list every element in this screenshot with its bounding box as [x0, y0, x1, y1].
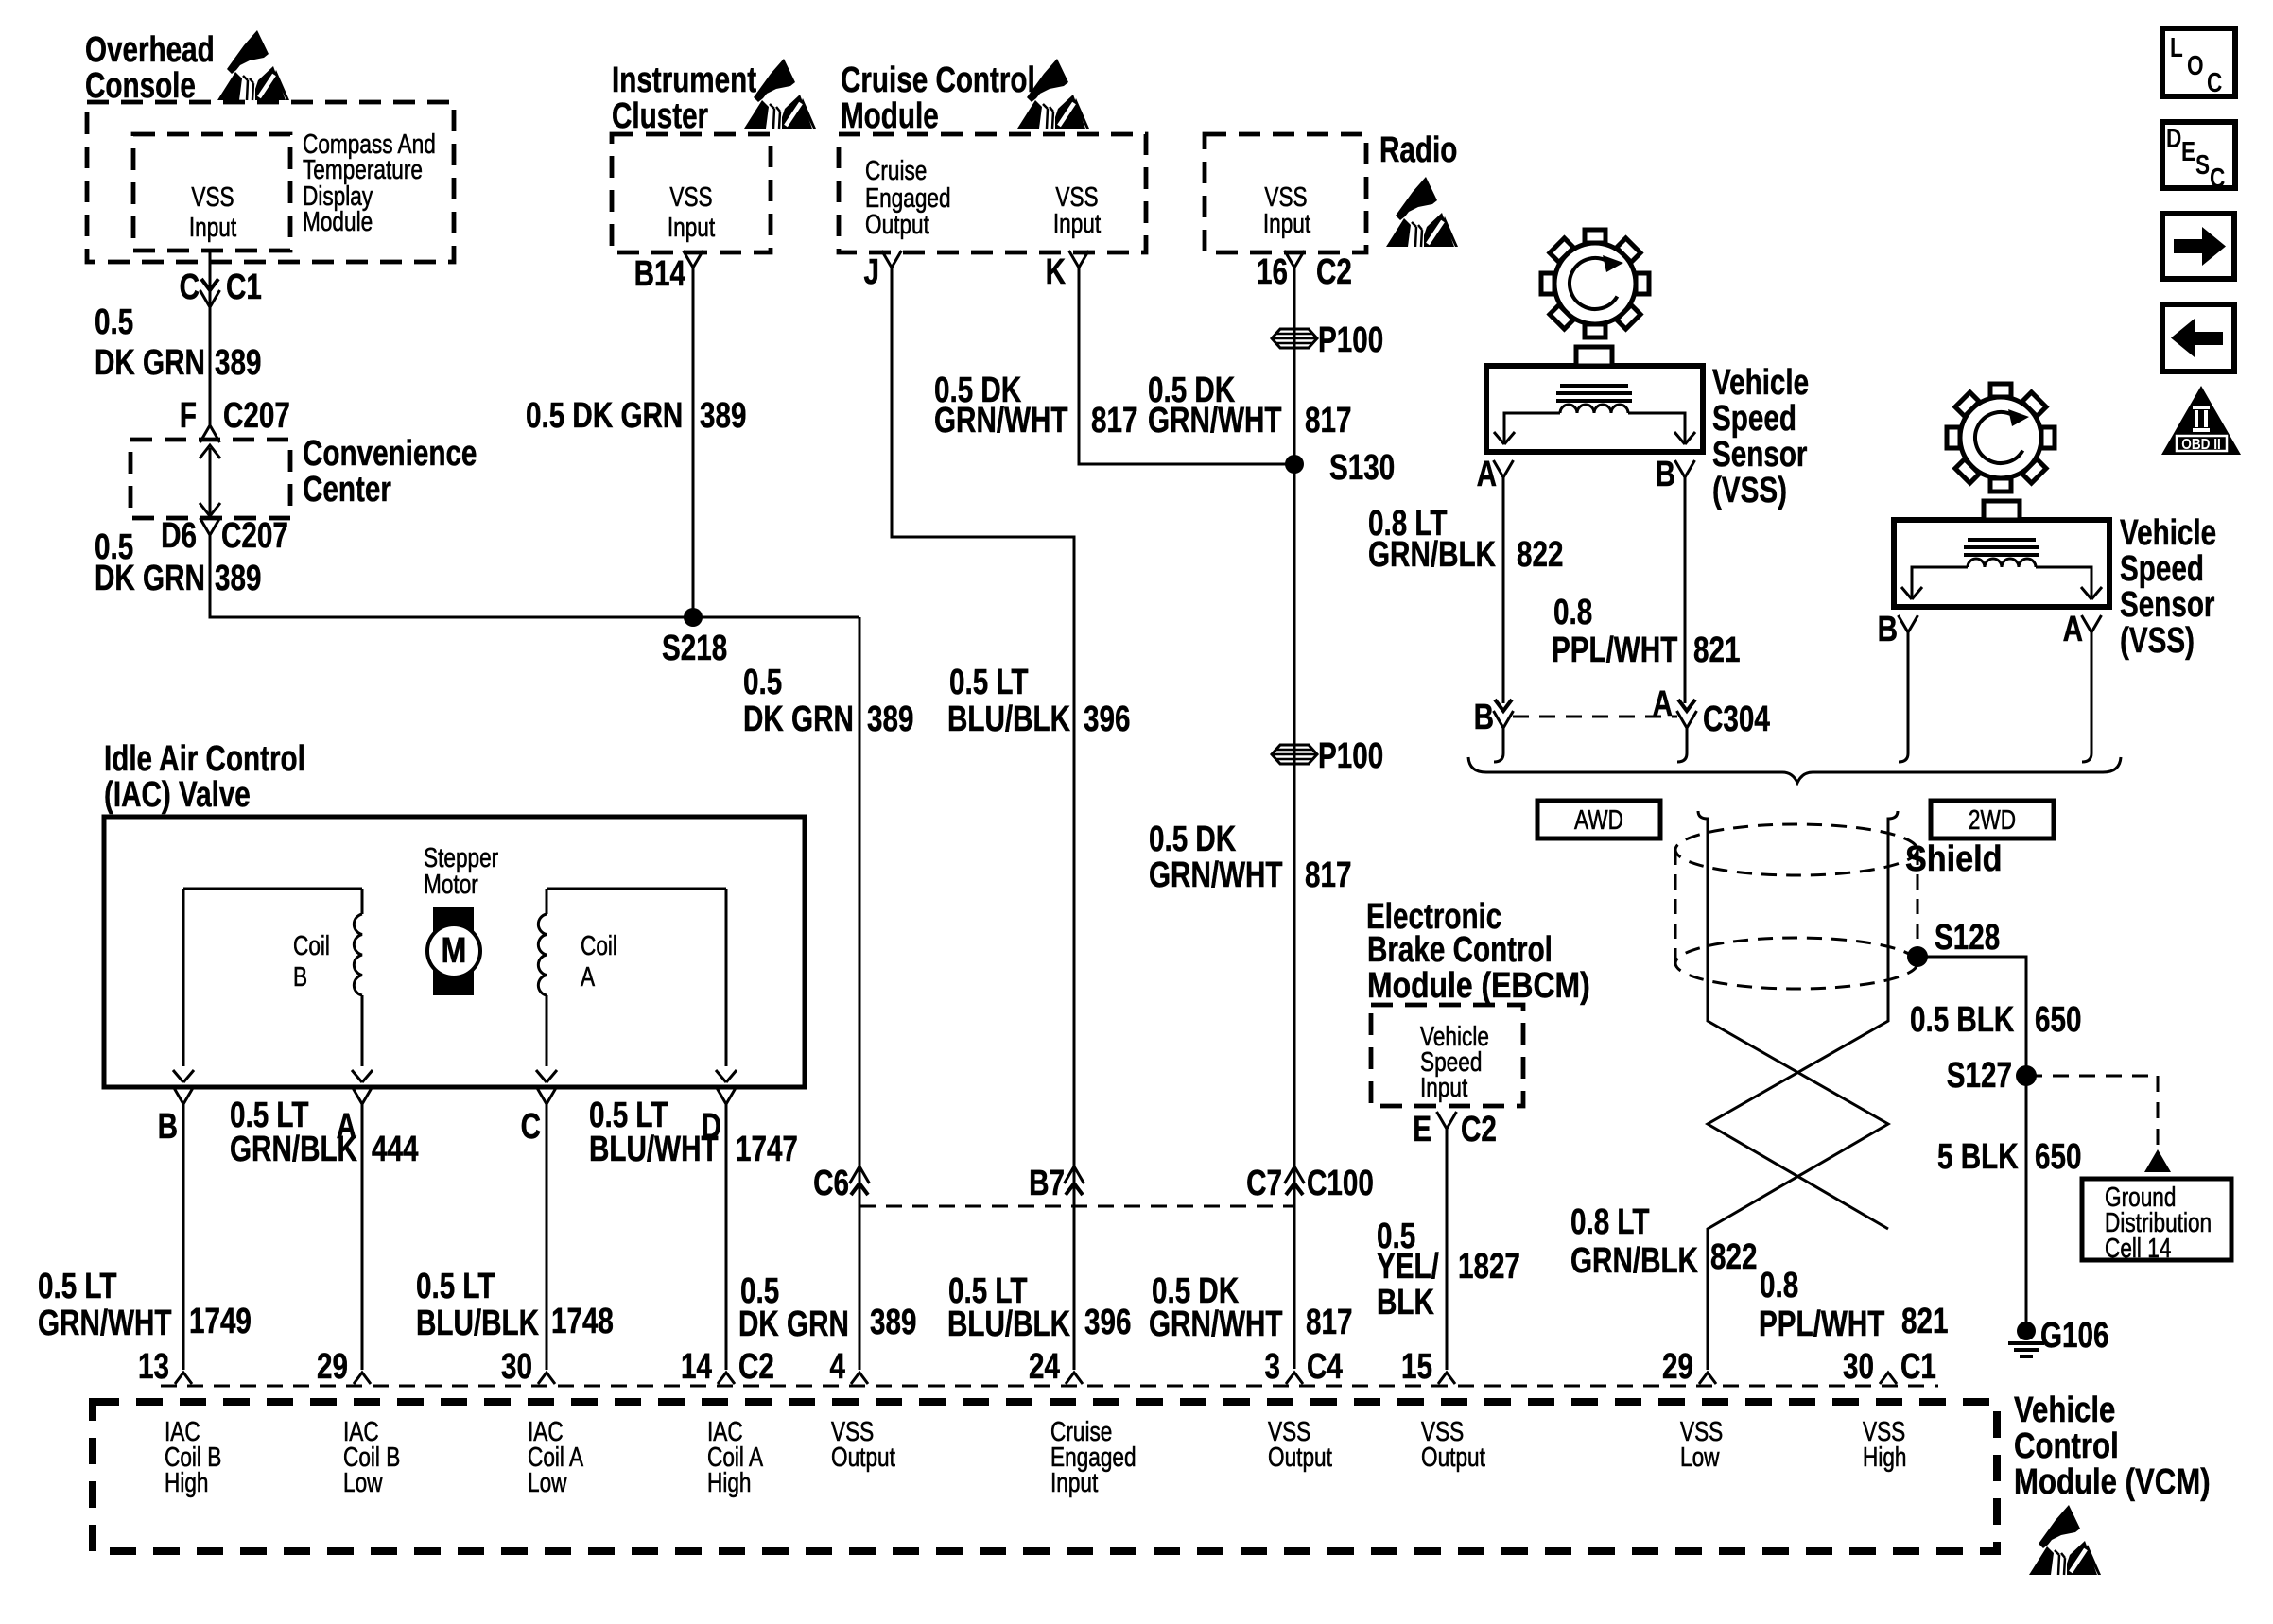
wire label 0.5 BLK 650: [1910, 1000, 2081, 1040]
dashed wire S127 to Ground Distribution: [2026, 1076, 2171, 1172]
svg-text:Cell 14: Cell 14: [2105, 1232, 2171, 1263]
svg-text:High: High: [707, 1466, 752, 1497]
svg-text:C: C: [2210, 162, 2226, 193]
svg-text:DK GRN: DK GRN: [95, 343, 205, 383]
svg-text:GRN/BLK: GRN/BLK: [1570, 1241, 1698, 1281]
VCM pin label IAC Coil A Low: [528, 1415, 584, 1497]
svg-text:P100: P100: [1318, 320, 1383, 360]
svg-text:Low: Low: [343, 1466, 383, 1497]
svg-text:Output: Output: [865, 208, 930, 239]
svg-text:F: F: [180, 396, 197, 436]
svg-text:Motor: Motor: [424, 868, 478, 899]
svg-text:(VSS): (VSS): [1712, 471, 1787, 510]
vehicle speed sensor 1 body: [1486, 366, 1703, 452]
svg-text:PPL/WHT: PPL/WHT: [1552, 631, 1677, 670]
svg-text:(VSS): (VSS): [2120, 621, 2195, 661]
pin 16 C2: [1257, 251, 1352, 292]
svg-text:VSS: VSS: [191, 181, 234, 212]
label Coil A: [581, 929, 617, 992]
svg-text:A: A: [1477, 455, 1497, 494]
harness underbrace: [1468, 757, 2121, 783]
wire label 0.5 LT BLU/BLK 1748: [416, 1267, 614, 1343]
svg-text:C2: C2: [1461, 1110, 1497, 1149]
svg-text:Idle Air Control: Idle Air Control: [104, 739, 305, 779]
wire label 5 BLK 650: [1937, 1137, 2081, 1177]
svg-text:G106: G106: [2040, 1316, 2108, 1356]
label Vehicle Speed Sensor (VSS) 1: [1712, 363, 1809, 510]
double arrow inside Convenience Center: [200, 445, 220, 516]
svg-text:E: E: [2181, 135, 2195, 166]
svg-text:E: E: [1413, 1110, 1431, 1149]
svg-text:4: 4: [830, 1347, 846, 1387]
svg-text:Console: Console: [85, 66, 196, 106]
svg-text:444: 444: [372, 1130, 418, 1169]
svg-text:Output: Output: [831, 1441, 896, 1472]
label Stepper Motor: [424, 841, 499, 899]
wire radio VSS down to VCM pin 3: [1293, 268, 1296, 1369]
svg-text:B: B: [293, 960, 307, 992]
shield cylinder dashed: [1675, 824, 1917, 989]
svg-text:D: D: [2166, 122, 2181, 153]
svg-text:Input: Input: [1053, 207, 1102, 238]
OBD II triangle: [2161, 386, 2241, 455]
svg-text:0.5 LT: 0.5 LT: [949, 663, 1029, 702]
wire IAC B to VCM: [182, 1104, 185, 1370]
svg-text:16: 16: [1257, 252, 1288, 292]
svg-text:389: 389: [867, 700, 913, 739]
svg-text:J: J: [864, 252, 879, 292]
svg-text:Overhead: Overhead: [85, 30, 215, 70]
pin J: [864, 251, 902, 292]
svg-text:0.5 DK GRN: 0.5 DK GRN: [526, 396, 683, 436]
svg-text:5 BLK: 5 BLK: [1937, 1137, 2019, 1177]
wire sensor2 A stub: [2091, 632, 2093, 753]
wire label 0.5 DK GRN 389 (instrument cluster): [526, 396, 746, 436]
label Coil B: [293, 929, 330, 992]
svg-text:B7: B7: [1029, 1164, 1065, 1203]
sensor1 pin A: [1477, 455, 1514, 494]
svg-text:Sensor: Sensor: [2120, 585, 2214, 625]
connector C100 pin C7: [1246, 1164, 1374, 1203]
svg-text:High: High: [165, 1466, 209, 1497]
wire label 0.8 LT GRN/BLK 822: [1368, 504, 1563, 575]
ESD symbol Instrument Cluster: [744, 59, 816, 129]
svg-text:OBD II: OBD II: [2181, 437, 2221, 453]
DESC reference box: [2162, 122, 2235, 194]
VCM pin 3/C4: [1265, 1347, 1343, 1387]
svg-text:C207: C207: [221, 516, 288, 556]
svg-text:Cruise Control: Cruise Control: [841, 60, 1035, 100]
connector C100 dashed line: [859, 1205, 1294, 1208]
svg-text:Sensor: Sensor: [1712, 435, 1807, 475]
label Compass And Temperature Display Module: [303, 128, 436, 236]
svg-text:BLK: BLK: [1377, 1283, 1434, 1322]
svg-text:S128: S128: [1935, 918, 2000, 958]
svg-text:A: A: [581, 960, 596, 992]
svg-text:Vehicle: Vehicle: [2014, 1391, 2115, 1430]
svg-text:BLU/BLK: BLU/BLK: [947, 1304, 1070, 1344]
VCM connector dashed pin line: [161, 1385, 1938, 1388]
svg-text:0.8: 0.8: [1760, 1266, 1798, 1305]
svg-text:Input: Input: [189, 211, 237, 242]
svg-text:396: 396: [1084, 700, 1130, 739]
svg-text:Module (VCM): Module (VCM): [2014, 1462, 2211, 1502]
svg-text:Module (EBCM): Module (EBCM): [1367, 965, 1590, 1005]
wire label 0.5 DK GRN 389 (lower): [95, 527, 261, 598]
module Overhead Console title: [85, 30, 215, 106]
VCM pin 15: [1401, 1347, 1455, 1387]
svg-text:2WD: 2WD: [1969, 803, 2016, 835]
svg-text:Brake Control: Brake Control: [1367, 930, 1553, 970]
svg-text:GRN/BLK: GRN/BLK: [1368, 535, 1496, 575]
svg-text:O: O: [2187, 49, 2204, 80]
wire label 0.5 DK GRN/WHT 817 (K): [934, 371, 1137, 441]
svg-text:C1: C1: [226, 268, 262, 307]
wire label 0.5 DK GRN 389 (S218 wire): [743, 663, 913, 739]
ESD symbol Radio: [1386, 177, 1458, 247]
svg-text:GRN/WHT: GRN/WHT: [38, 1304, 172, 1343]
wire label 0.8 PPL/WHT 821 (lower): [1759, 1266, 1948, 1344]
svg-text:Output: Output: [1421, 1441, 1486, 1472]
svg-text:Output: Output: [1268, 1441, 1333, 1472]
svg-text:S130: S130: [1329, 448, 1395, 488]
VCM pin label VSS High: [1863, 1415, 1907, 1472]
module Instrument Cluster title: [612, 60, 756, 136]
connector P100 (upper): [1272, 320, 1383, 360]
wire label 0.5 DK GRN 389 (bottom): [738, 1271, 916, 1344]
VCM box: [93, 1402, 1997, 1551]
svg-text:C: C: [2207, 66, 2223, 97]
svg-text:C6: C6: [813, 1164, 849, 1203]
wire IAC C to VCM: [546, 1104, 548, 1370]
svg-text:C: C: [180, 268, 200, 307]
svg-text:389: 389: [700, 396, 746, 436]
coil A (IAC): [536, 889, 737, 1082]
svg-text:C1: C1: [1900, 1347, 1936, 1387]
wire C304 A stub: [1686, 728, 1689, 753]
svg-text:BLU/WHT: BLU/WHT: [589, 1130, 719, 1169]
EBCM box: [1371, 1005, 1523, 1106]
IAC valve box: [104, 817, 805, 1087]
svg-text:C100: C100: [1307, 1164, 1374, 1203]
svg-text:(IAC) Valve: (IAC) Valve: [104, 775, 251, 815]
IAC pin C: [521, 1087, 557, 1147]
splice S127: [1947, 1056, 2037, 1096]
Ground Distribution Cell 14 box: [2082, 1179, 2231, 1264]
svg-text:C: C: [521, 1107, 541, 1147]
svg-text:Center: Center: [303, 470, 391, 510]
svg-text:DK GRN: DK GRN: [743, 700, 854, 739]
svg-text:A: A: [1653, 684, 1673, 724]
connector C100 pin C6: [813, 1164, 869, 1203]
splice S218: [662, 608, 727, 668]
wire label 0.5 DK GRN/WHT 817 (bottom): [1149, 1271, 1352, 1344]
EBCM pin E C2: [1413, 1110, 1497, 1149]
wire label 0.5 DK GRN/WHT 817 (radio upper): [1148, 371, 1351, 441]
svg-text:1747: 1747: [736, 1130, 798, 1169]
svg-text:0.5 LT: 0.5 LT: [416, 1267, 495, 1306]
Convenience Center box: [130, 440, 290, 518]
label Convenience Center: [303, 434, 477, 510]
svg-text:389: 389: [870, 1303, 916, 1342]
LOC reference box: [2162, 28, 2235, 98]
svg-text:D6: D6: [161, 516, 197, 556]
AWD box: [1537, 801, 1660, 838]
IAC pin A: [337, 1087, 373, 1147]
svg-text:Low: Low: [528, 1466, 567, 1497]
gear icon VSS 2: [1947, 384, 2055, 492]
pin B14: [634, 251, 703, 294]
wire Convenience Center down to S218 horizontal run: [210, 535, 859, 617]
VCM pin 14/C2: [681, 1347, 774, 1387]
svg-text:Input: Input: [1263, 207, 1311, 238]
sensor1 pin B: [1656, 455, 1695, 494]
svg-text:3: 3: [1265, 1347, 1280, 1387]
wire label 0.5 LT BLU/BLK 396 (bottom): [947, 1271, 1131, 1344]
pin K: [1046, 251, 1089, 292]
2WD box: [1931, 801, 2054, 838]
svg-text:30: 30: [501, 1347, 532, 1387]
svg-text:650: 650: [2035, 1000, 2081, 1040]
wire B14 to S218: [692, 268, 695, 616]
svg-text:C7: C7: [1246, 1164, 1282, 1203]
svg-text:BLU/BLK: BLU/BLK: [416, 1304, 539, 1343]
left arrow reference box: [2162, 304, 2234, 371]
svg-text:30: 30: [1843, 1347, 1874, 1387]
wire VSS Input to C1 connector: [209, 251, 212, 425]
VCM pin 30: [501, 1347, 555, 1387]
svg-text:B: B: [1878, 610, 1898, 649]
svg-text:Input: Input: [668, 211, 716, 242]
svg-text:817: 817: [1091, 401, 1137, 441]
svg-text:0.5: 0.5: [95, 302, 133, 342]
EBCM title: [1366, 897, 1590, 1006]
ESD symbol VCM: [2029, 1505, 2101, 1575]
connector C1 (pin C): [180, 268, 262, 307]
wire sensor1 A (822): [1502, 477, 1505, 703]
svg-text:1748: 1748: [551, 1302, 614, 1341]
svg-text:C304: C304: [1703, 700, 1770, 739]
connector C207 pin D6: [161, 516, 288, 556]
wire K to S130: [1079, 268, 1294, 464]
wire C304 B stub: [1502, 728, 1505, 753]
svg-text:Vehicle: Vehicle: [2120, 513, 2216, 553]
svg-text:Input: Input: [1420, 1071, 1468, 1102]
wire label 0.8 PPL/WHT 821: [1552, 593, 1740, 670]
IAC pin B: [158, 1087, 194, 1147]
svg-text:Coil: Coil: [581, 929, 617, 960]
svg-text:389: 389: [215, 343, 261, 383]
wire S128 to ground G106: [1917, 957, 2026, 1322]
svg-text:L: L: [2170, 31, 2183, 62]
svg-text:C2: C2: [738, 1347, 774, 1387]
twisted pair wire VSS High: [1708, 811, 1898, 1229]
gear icon VSS 1: [1541, 230, 1649, 337]
svg-text:Cluster: Cluster: [612, 96, 708, 136]
wire label 0.5 YEL/BLK 1827: [1377, 1217, 1520, 1322]
twisted pair wire VSS Low: [1698, 811, 1888, 1370]
svg-text:A: A: [2063, 610, 2083, 649]
VCM title: [2014, 1391, 2211, 1502]
svg-text:0.5 DK: 0.5 DK: [1149, 820, 1237, 859]
svg-text:C207: C207: [223, 396, 290, 436]
svg-text:24: 24: [1029, 1347, 1060, 1387]
svg-text:650: 650: [2035, 1137, 2081, 1177]
vehicle speed sensor 2 body: [1894, 520, 2109, 607]
svg-text:Shield: Shield: [1905, 838, 2003, 878]
svg-text:S: S: [2195, 148, 2210, 180]
svg-text:Instrument: Instrument: [612, 60, 756, 100]
label Vehicle Speed Sensor (VSS) 2: [2120, 513, 2216, 661]
svg-text:High: High: [1863, 1441, 1907, 1472]
svg-text:1827: 1827: [1458, 1247, 1520, 1287]
wire IAC A to VCM: [361, 1104, 364, 1370]
module Instrument Cluster box: [612, 134, 771, 252]
svg-text:GRN/BLK: GRN/BLK: [230, 1130, 357, 1169]
svg-text:DK GRN: DK GRN: [738, 1304, 849, 1344]
VCM pin label IAC Coil B High: [165, 1415, 221, 1497]
svg-text:DK GRN: DK GRN: [95, 559, 205, 598]
wire label 0.5 LT GRN/WHT 1749: [38, 1267, 252, 1343]
svg-text:B: B: [1656, 455, 1675, 494]
connector C304: [1474, 684, 1770, 739]
svg-text:822: 822: [1517, 535, 1563, 575]
wire EBCM E to VCM pin 15: [1446, 1129, 1449, 1370]
module Cruise Control box: [839, 134, 1146, 252]
wire sensor1 B (821): [1684, 477, 1687, 703]
sensor2 pin A: [2063, 610, 2102, 649]
svg-text:0.5: 0.5: [743, 663, 782, 702]
module Overhead Console box: [87, 102, 454, 262]
svg-text:817: 817: [1306, 1303, 1352, 1342]
wire J (cruise engaged output): [892, 268, 1074, 1370]
VCM pin 29: [1662, 1347, 1716, 1387]
svg-text:K: K: [1046, 252, 1067, 292]
svg-text:Convenience: Convenience: [303, 434, 477, 474]
ground G106: [2008, 1316, 2108, 1356]
svg-text:Vehicle: Vehicle: [1712, 363, 1809, 403]
svg-text:Speed: Speed: [1712, 399, 1796, 439]
ESD symbol Cruise Control: [1017, 59, 1089, 129]
svg-text:Radio: Radio: [1379, 130, 1457, 170]
svg-text:B: B: [158, 1107, 178, 1147]
svg-text:389: 389: [215, 559, 261, 598]
svg-text:BLU/BLK: BLU/BLK: [947, 700, 1070, 739]
svg-text:0.5 LT: 0.5 LT: [38, 1267, 117, 1306]
wire label 0.5 DK GRN/WHT 817 (radio mid): [1149, 820, 1351, 895]
svg-text:821: 821: [1901, 1302, 1948, 1341]
splice S130: [1285, 448, 1395, 488]
svg-text:0.5 BLK: 0.5 BLK: [1910, 1000, 2015, 1040]
svg-text:817: 817: [1305, 401, 1351, 441]
VCM pin 24: [1029, 1347, 1083, 1387]
svg-text:821: 821: [1693, 631, 1740, 670]
coil B (IAC): [173, 889, 373, 1082]
splice S128: [1907, 918, 2000, 967]
svg-text:Low: Low: [1680, 1441, 1720, 1472]
VCM pin 29: [317, 1347, 371, 1387]
svg-text:Input: Input: [1050, 1466, 1099, 1497]
svg-text:S218: S218: [662, 629, 727, 668]
svg-text:817: 817: [1305, 855, 1351, 895]
svg-text:Control: Control: [2014, 1426, 2119, 1466]
svg-text:Module: Module: [841, 96, 939, 136]
wire label 0.8 LT GRN/BLK 822 (lower): [1570, 1202, 1757, 1281]
svg-text:13: 13: [138, 1347, 169, 1387]
stepper motor M: [427, 907, 480, 995]
svg-text:29: 29: [1662, 1347, 1693, 1387]
svg-text:B14: B14: [634, 254, 685, 294]
svg-text:0.8: 0.8: [1553, 593, 1592, 632]
svg-text:P100: P100: [1318, 736, 1383, 776]
svg-text:15: 15: [1401, 1347, 1432, 1387]
IAC pin D: [702, 1087, 737, 1147]
VCM pin label VSS Output (4): [831, 1415, 896, 1472]
wire S218 down to VCM pin 4: [859, 617, 861, 1370]
module Cruise Control Module title: [841, 60, 1035, 136]
svg-text:822: 822: [1710, 1237, 1757, 1277]
sensor2 pin B: [1878, 610, 1918, 649]
svg-text:PPL/WHT: PPL/WHT: [1759, 1304, 1884, 1344]
module Radio box: [1205, 134, 1366, 252]
svg-text:GRN/WHT: GRN/WHT: [934, 401, 1068, 441]
svg-text:GRN/WHT: GRN/WHT: [1148, 401, 1282, 441]
svg-text:S127: S127: [1947, 1056, 2012, 1096]
wire label 0.5 LT BLU/BLK 396 (J wire): [947, 663, 1130, 739]
VCM pin label Cruise Engaged Input: [1050, 1415, 1136, 1497]
svg-text:Module: Module: [303, 205, 373, 236]
VCM pin label IAC Coil A High: [707, 1415, 764, 1497]
VCM pin label VSS Output (3): [1268, 1415, 1333, 1472]
VCM pin 13: [138, 1347, 192, 1387]
connector C100 pin B7: [1029, 1164, 1084, 1203]
right arrow reference box: [2162, 214, 2234, 279]
svg-text:C4: C4: [1307, 1347, 1343, 1387]
VCM pin label VSS Output (15): [1421, 1415, 1486, 1472]
VSS Input sub-box (Overhead Console): [133, 134, 290, 251]
svg-text:AWD: AWD: [1574, 803, 1623, 835]
svg-text:1749: 1749: [189, 1302, 252, 1341]
VCM pin 30/C1: [1843, 1347, 1936, 1387]
VCM pin label VSS Low: [1680, 1415, 1723, 1472]
module Radio title: [1379, 130, 1457, 170]
connector P100 (lower): [1272, 736, 1383, 776]
VCM pin 4: [830, 1347, 868, 1387]
svg-text:B: B: [1474, 698, 1494, 737]
svg-text:M: M: [442, 931, 467, 971]
wire sensor2 B stub: [1907, 632, 1910, 753]
wire label 0.5 DK GRN 389 (upper): [95, 302, 261, 383]
VCM pin label IAC Coil B Low: [343, 1415, 400, 1497]
svg-text:14: 14: [681, 1347, 712, 1387]
connector C207 pin F: [180, 396, 290, 442]
wire IAC D to VCM: [725, 1104, 728, 1370]
svg-text:396: 396: [1084, 1303, 1131, 1342]
svg-text:YEL/: YEL/: [1377, 1247, 1439, 1287]
ESD symbol Overhead Console: [217, 30, 289, 100]
svg-text:C2: C2: [1316, 252, 1352, 292]
svg-text:Coil: Coil: [293, 929, 330, 960]
svg-text:Speed: Speed: [2120, 549, 2204, 589]
svg-text:GRN/WHT: GRN/WHT: [1149, 855, 1283, 895]
wire label 0.5 LT GRN/BLK 444: [230, 1096, 418, 1169]
label Shield: [1905, 838, 2003, 878]
wire label 0.5 LT BLU/WHT 1747: [589, 1096, 798, 1169]
svg-text:0.8 LT: 0.8 LT: [1570, 1202, 1650, 1242]
svg-text:29: 29: [317, 1347, 348, 1387]
IAC valve title: [104, 739, 305, 815]
svg-text:GRN/WHT: GRN/WHT: [1149, 1304, 1283, 1344]
